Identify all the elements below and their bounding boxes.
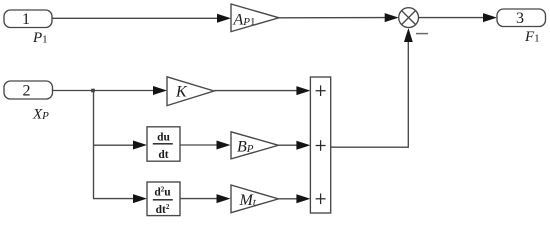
wire 1 to AP1 — [52, 17, 219, 19]
wire du/dt to BP — [180, 144, 217, 146]
gain K — [167, 77, 214, 106]
plus row1 — [316, 85, 326, 96]
plus row3 — [316, 194, 326, 205]
arrowhead into AP1 — [217, 14, 231, 23]
svg-text:1: 1 — [22, 11, 30, 28]
svg-text:2: 2 — [23, 83, 31, 100]
wire AP1 to product — [279, 17, 386, 19]
derivative du/dt — [147, 127, 180, 161]
wire 2 to K — [53, 90, 155, 92]
arrowhead into du/dt — [133, 141, 147, 150]
gain BP — [231, 132, 278, 159]
wire K to sum — [214, 90, 297, 92]
wire branch to du/dt — [93, 144, 134, 146]
wire Mt to sum — [278, 198, 297, 200]
arrowhead into Mt — [217, 194, 231, 203]
outport block 3 — [497, 9, 546, 27]
arrowhead into sum row3 — [296, 194, 310, 203]
arrowhead into K — [153, 86, 167, 95]
svg-text:K: K — [175, 84, 188, 101]
minus sign — [416, 33, 428, 35]
gain Mt — [231, 185, 278, 213]
svg-text:dt: dt — [158, 149, 168, 161]
wire BP to sum — [278, 144, 297, 146]
wire product to 3 — [419, 17, 486, 19]
plus row2 — [316, 140, 326, 151]
svg-text:3: 3 — [516, 10, 524, 27]
svg-text:du: du — [157, 132, 170, 144]
arrowhead up into product — [404, 28, 413, 42]
wire d2u/dt2 to Mt — [180, 198, 217, 200]
inport block 2 — [4, 81, 53, 100]
arrowhead into product — [385, 13, 399, 22]
branch wire down — [93, 91, 95, 199]
arrowhead into BP — [217, 141, 231, 150]
derivative d2u/dt2 — [147, 182, 180, 216]
inport block 1 — [4, 10, 52, 28]
arrowhead into sum row1 — [296, 86, 310, 95]
wire sum to product — [331, 41, 409, 147]
sum block — [310, 77, 330, 213]
junction — [91, 89, 95, 93]
arrowhead into d2u/dt2 — [133, 194, 147, 203]
gain AP1 — [231, 4, 279, 32]
arrowhead into sum row2 — [296, 141, 310, 150]
wire branch to d2u/dt2 — [93, 198, 134, 200]
arrowhead into 3 — [483, 13, 497, 22]
product node X — [399, 8, 419, 28]
